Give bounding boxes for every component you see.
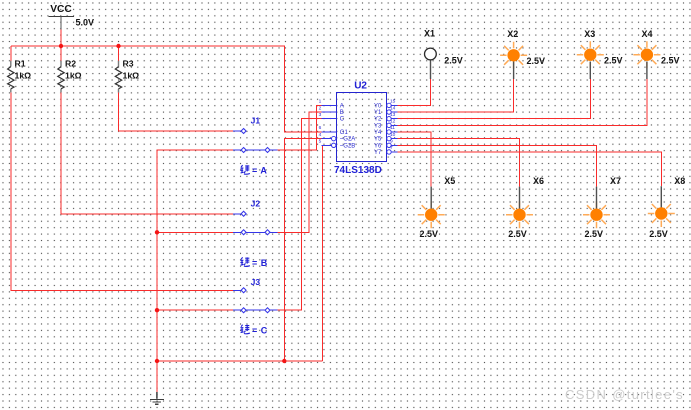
svg-text:Y7: Y7 — [374, 150, 382, 156]
svg-text:1kΩ: 1kΩ — [123, 71, 140, 81]
svg-text:74LS138D: 74LS138D — [334, 165, 382, 176]
svg-text:X5: X5 — [444, 176, 455, 186]
pin G1 stub — [321, 131, 336, 133]
wire Y2 to X3 — [397, 79, 590, 119]
svg-text:Y4: Y4 — [374, 130, 382, 136]
wire R1 bottom to J3 upper throw — [11, 92, 233, 290]
wire VCC stem red — [60, 29, 62, 46]
output bubbles and stubs Y0-Y7 — [392, 105, 398, 152]
wire ground rail — [157, 360, 323, 362]
svg-text:7: 7 — [390, 145, 393, 151]
svg-text:= A: = A — [252, 165, 267, 175]
label key=C — [240, 325, 267, 336]
svg-text:10: 10 — [390, 132, 396, 138]
wire J3 pole to pin C — [278, 119, 322, 311]
svg-text:6: 6 — [319, 125, 322, 131]
svg-text:R1: R1 — [15, 58, 26, 68]
svg-text:2: 2 — [319, 105, 322, 111]
lamp X6 (on) — [506, 176, 544, 239]
wire J2 lower throw — [157, 231, 233, 233]
wire VCC rail to G1 — [11, 46, 322, 132]
svg-text:9: 9 — [390, 139, 393, 145]
svg-text:X7: X7 — [610, 176, 621, 186]
switch J3 — [233, 277, 278, 313]
resistor R2 — [58, 58, 82, 92]
svg-text:= B: = B — [252, 258, 268, 268]
lamp X3 (on) — [577, 29, 623, 79]
svg-text:2.5V: 2.5V — [649, 229, 668, 239]
pin C stub — [321, 118, 336, 120]
label key=A — [240, 165, 267, 175]
svg-text:J2: J2 — [251, 198, 261, 208]
wire R2 top — [60, 46, 62, 61]
switch J1 — [233, 116, 278, 153]
svg-text:X3: X3 — [584, 29, 595, 39]
svg-text:U2: U2 — [354, 80, 367, 91]
svg-text:1: 1 — [319, 99, 322, 105]
wire Y0 to X1 — [397, 79, 430, 105]
wire Y7 to X8 — [397, 152, 661, 186]
pin numbers — [319, 99, 396, 152]
svg-text:12: 12 — [390, 119, 396, 125]
svg-text:5: 5 — [319, 139, 322, 145]
svg-text:Y5: Y5 — [374, 137, 382, 143]
svg-text:~G2B: ~G2B — [340, 143, 356, 149]
wire J1 pole to pin A — [278, 105, 322, 150]
junction J3 lower throw — [155, 308, 159, 312]
svg-text:1kΩ: 1kΩ — [65, 71, 82, 81]
svg-text:Y0: Y0 — [374, 103, 382, 109]
svg-text:CSDN @turtlee's: CSDN @turtlee's — [565, 387, 684, 402]
svg-text:11: 11 — [390, 125, 395, 131]
svg-text:J3: J3 — [251, 277, 261, 287]
svg-text:2.5V: 2.5V — [661, 56, 680, 66]
pin names — [340, 103, 382, 156]
label key=B — [240, 257, 267, 268]
svg-text:J1: J1 — [251, 116, 261, 126]
svg-text:G1: G1 — [340, 130, 349, 136]
svg-text:3: 3 — [319, 112, 322, 118]
junction ground rail left — [155, 359, 159, 363]
lamp X5 (on) — [418, 176, 456, 239]
svg-text:A: A — [340, 103, 344, 109]
pin G2A stub + bubble — [321, 138, 331, 140]
junction J2 lower throw — [155, 230, 159, 234]
svg-text:R3: R3 — [123, 58, 134, 68]
wire R3 top — [118, 46, 120, 61]
pin G2B stub + bubble — [321, 144, 331, 146]
lamp X7 (on) — [583, 176, 621, 239]
svg-text:1kΩ: 1kΩ — [15, 71, 32, 81]
svg-text:Y3: Y3 — [374, 123, 382, 129]
wire Y3 to X4 — [397, 79, 647, 125]
wire J3 lower throw — [157, 309, 233, 311]
svg-text:15: 15 — [390, 99, 396, 105]
wire J2 pole to pin B — [278, 112, 322, 232]
lamp X1 (off) — [424, 29, 463, 79]
junction ground rail G2A — [282, 359, 286, 363]
svg-text:~G2A: ~G2A — [340, 137, 356, 143]
switch J2 — [233, 198, 278, 234]
power VCC symbol — [48, 4, 94, 29]
svg-text:R2: R2 — [65, 58, 76, 68]
svg-text:X2: X2 — [507, 29, 518, 39]
svg-text:2.5V: 2.5V — [527, 56, 546, 66]
lamp X2 (on) — [500, 29, 545, 79]
wire R2 bottom to J2 upper throw — [61, 92, 233, 213]
svg-text:X4: X4 — [642, 29, 653, 39]
ground — [150, 392, 164, 404]
wire R1 top — [10, 46, 12, 61]
svg-text:X1: X1 — [424, 29, 435, 39]
wire Y4 to X5 — [397, 132, 431, 187]
svg-text:14: 14 — [390, 105, 396, 111]
wire Y1 to X2 — [397, 79, 513, 112]
wire Y5 to X6 — [397, 139, 519, 187]
pin A stub — [321, 104, 336, 106]
svg-text:2.5V: 2.5V — [508, 229, 527, 239]
svg-text:2.5V: 2.5V — [585, 229, 604, 239]
svg-text:13: 13 — [390, 112, 396, 118]
wire Y6 to X7 — [397, 145, 596, 186]
wire R3 bottom to J1 upper throw — [119, 92, 233, 131]
lamp X8 (on) — [648, 176, 685, 239]
junction rail-R3 — [116, 44, 120, 48]
svg-text:X8: X8 — [674, 176, 685, 186]
svg-text:VCC: VCC — [50, 4, 72, 15]
junction rail-VCC — [59, 44, 63, 48]
wire G2B to ground — [323, 145, 332, 361]
svg-text:Y1: Y1 — [374, 110, 382, 116]
svg-text:X6: X6 — [533, 176, 544, 186]
wire J1 lower throw to ground bus — [157, 150, 233, 392]
svg-text:Y2: Y2 — [374, 117, 382, 123]
svg-text:5.0V: 5.0V — [76, 18, 95, 28]
svg-text:4: 4 — [319, 132, 322, 138]
pin B stub — [321, 111, 336, 113]
resistor R3 — [115, 58, 139, 92]
lamp X4 (on) — [633, 29, 679, 79]
svg-text:2.5V: 2.5V — [420, 229, 439, 239]
svg-text:Y6: Y6 — [374, 143, 382, 149]
svg-text:B: B — [340, 110, 344, 116]
resistor R1 — [8, 58, 32, 92]
svg-text:C: C — [340, 117, 345, 123]
svg-text:2.5V: 2.5V — [604, 56, 623, 66]
svg-text:= C: = C — [252, 325, 268, 335]
IC U2 74LS138D — [319, 80, 398, 176]
svg-text:2.5V: 2.5V — [444, 56, 463, 66]
wire G2A to ground — [284, 139, 331, 361]
